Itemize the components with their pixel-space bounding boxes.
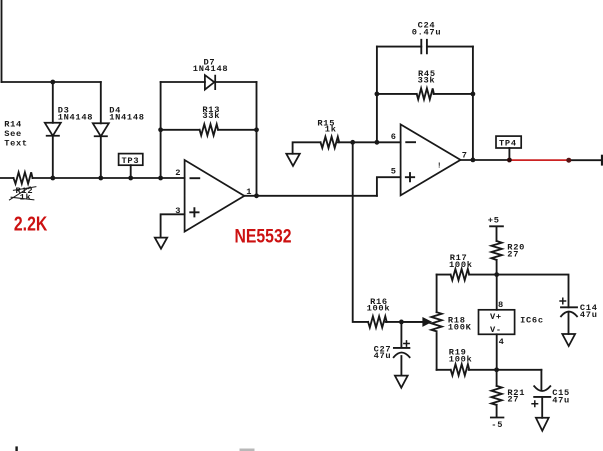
node dot R17 right [494, 272, 499, 277]
node dot op-amp2 output [471, 158, 476, 163]
wire output right black [568, 159, 601, 161]
wire C27 stub [400, 322, 402, 376]
C15 plus sign [531, 400, 538, 407]
node dot R13 right [254, 127, 259, 132]
R18 wiper arrow head [423, 318, 432, 327]
svg-text:6: 6 [391, 132, 397, 142]
resistor R18 [431, 312, 441, 331]
node dot op-amp1 output [254, 193, 259, 198]
wire main input horizontal [0, 177, 185, 179]
wire D4 vertical [100, 82, 102, 178]
svg-text:0.47u: 0.47u [412, 28, 442, 38]
svg-text:4: 4 [499, 337, 505, 347]
ground C27 [395, 376, 408, 388]
svg-text:V+: V+ [490, 312, 502, 322]
node dot red wire right [566, 158, 571, 163]
svg-text:1N4148: 1N4148 [109, 112, 144, 122]
svg-text:!: ! [437, 163, 442, 171]
red wire TP4 to node [510, 159, 568, 161]
wire top horizontal [2, 81, 101, 83]
wire R21 to -5 [491, 405, 504, 418]
svg-text:1k: 1k [325, 125, 337, 135]
node dot pin6 feedback [375, 140, 380, 145]
wire left branch vertical [436, 275, 438, 370]
capacitor C15 [534, 386, 550, 397]
wire R19 horizontal [437, 369, 542, 371]
op-amp U2 plus [405, 172, 415, 182]
TP3 box [119, 154, 143, 166]
diode D7 [205, 75, 215, 90]
svg-text:100k: 100k [449, 354, 473, 364]
svg-text:33k: 33k [202, 111, 220, 121]
wire feedback2 right vertical [472, 47, 474, 160]
wire feedback1 right vertical [256, 82, 258, 196]
wire D3 vertical [52, 82, 54, 178]
svg-text:47u: 47u [580, 310, 598, 320]
wire left-edge vertical [1, 0, 3, 82]
node dot feedback1 input [158, 176, 163, 181]
wire C15 to ground [541, 397, 543, 418]
C14 plus sign [559, 298, 566, 305]
node dot TP3 [128, 176, 133, 181]
wire C24 horizontal [377, 46, 473, 48]
svg-text:33k: 33k [418, 76, 436, 86]
op-amp U1 plus [189, 207, 199, 217]
R12 strike lines [9, 187, 36, 201]
node dot R16 right [399, 320, 404, 325]
wire node to C14 [497, 275, 569, 308]
wire D7 horizontal [161, 81, 257, 83]
wire R17 horizontal [437, 274, 497, 276]
ground C14 [562, 334, 575, 346]
bottom left tick [15, 446, 17, 451]
node dot D3 bottom [50, 176, 55, 181]
node dot R45 right [471, 92, 476, 97]
bottom faint mark [240, 449, 255, 451]
svg-text:7: 7 [462, 151, 468, 161]
svg-text:1k: 1k [20, 193, 32, 203]
svg-text:5: 5 [391, 167, 397, 177]
svg-text:Text: Text [4, 139, 28, 149]
wire feedback2 left vertical [376, 47, 378, 143]
IC6c box [479, 310, 515, 335]
node dot R19 right [494, 367, 499, 372]
svg-text:100k: 100k [367, 304, 391, 314]
op-amp U2 minus [405, 141, 416, 143]
ground R15 [286, 154, 300, 166]
resistor R21 [491, 386, 501, 405]
resistor R19 [451, 364, 470, 375]
node dot D4 bottom [98, 176, 103, 181]
op-amp U2 [401, 124, 461, 195]
wire R15 left + ground stub [293, 142, 321, 153]
svg-text:2: 2 [175, 168, 181, 178]
resistor R17 [451, 269, 470, 280]
ground op-amp1 pin3 [155, 238, 167, 249]
wire R13 horizontal [161, 129, 257, 131]
wire C15 stub [540, 370, 542, 390]
R18 wiper wire [401, 321, 423, 323]
resistor R20 [491, 241, 501, 260]
svg-text:27: 27 [507, 395, 519, 405]
ground C15 [536, 418, 549, 431]
wire TP4 stub [508, 148, 510, 160]
wire +5 to R20 [490, 226, 503, 241]
node dot R15 right [350, 140, 355, 145]
svg-text:TP4: TP4 [499, 139, 517, 149]
diode D3 [45, 123, 61, 136]
svg-text:1N4148: 1N4148 [58, 112, 93, 122]
op-amp U1 minus [190, 177, 201, 179]
wire op-amp1 output [244, 195, 377, 197]
svg-text:TP3: TP3 [122, 156, 140, 166]
svg-text:-5: -5 [491, 420, 503, 430]
svg-text:1N4148: 1N4148 [193, 64, 228, 74]
capacitor C24 [421, 40, 427, 54]
wire R21 top [496, 370, 498, 386]
resistor R13 [200, 124, 219, 135]
svg-text:R14: R14 [4, 120, 22, 130]
svg-text:27: 27 [507, 249, 519, 259]
wire pin6 horizontal [337, 141, 400, 143]
wire op-amp2 output black [461, 159, 511, 161]
resistor R15 [321, 137, 340, 148]
svg-text:100K: 100K [448, 323, 472, 333]
node dot R45 left [375, 92, 380, 97]
wire R16 horizontal + wiper [386, 321, 424, 323]
wire mid vertical to R16 [353, 142, 368, 322]
svg-text:+5: +5 [488, 216, 500, 226]
wire right edge tick [601, 156, 603, 164]
TP4 box [496, 136, 521, 148]
resistor R12 [14, 172, 33, 183]
node dot R13 left [158, 127, 163, 132]
svg-text:1: 1 [246, 187, 252, 197]
capacitor C14 [561, 307, 577, 316]
wire R45 horizontal [377, 93, 473, 95]
svg-text:NE5532: NE5532 [235, 225, 292, 247]
svg-text:100k: 100k [449, 260, 473, 270]
svg-text:V-: V- [490, 325, 502, 335]
node dot D3 top [50, 80, 55, 85]
wire feedback1 left vertical [160, 82, 162, 178]
capacitor C27 [394, 348, 410, 357]
C27 plus sign [403, 340, 410, 347]
resistor R16 [368, 316, 387, 327]
svg-text:47u: 47u [374, 351, 392, 361]
wire op-amp1 pin3 route [161, 214, 185, 237]
svg-text:8: 8 [498, 300, 504, 310]
wire R20 to node [496, 260, 498, 275]
svg-text:2.2K: 2.2K [14, 214, 48, 236]
wire op-amp2 pin5 route [377, 177, 401, 196]
node dot TP4 [507, 158, 512, 163]
wire IC6c bottom [496, 334, 498, 370]
wire TP3 stub [130, 165, 132, 178]
svg-text:47u: 47u [552, 395, 570, 405]
resistor R45 [417, 88, 434, 99]
svg-text:3: 3 [175, 206, 181, 216]
diode D4 [93, 123, 109, 136]
wire IC6c top [496, 275, 498, 310]
op-amp U1 [185, 160, 245, 232]
svg-text:IC6c: IC6c [520, 316, 544, 326]
wire C14 to ground [568, 312, 570, 334]
